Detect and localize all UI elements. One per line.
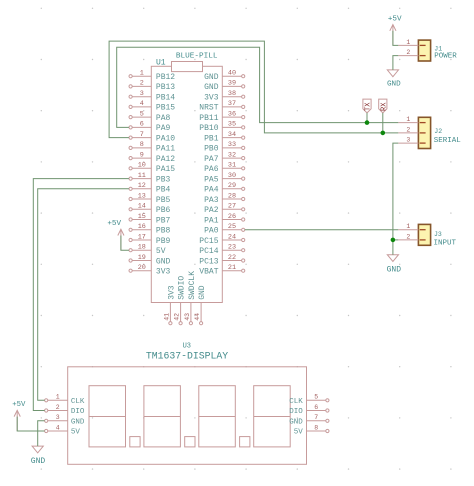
U1 pin 2 (PB13): [129, 80, 175, 93]
U3 decimal point 2: [185, 437, 195, 447]
svg-text:2: 2: [406, 49, 410, 56]
svg-text:26: 26: [228, 213, 236, 221]
svg-text:1: 1: [406, 223, 410, 230]
+5V power symbol (U1 pin 18): [107, 220, 124, 250]
svg-text:U1: U1: [156, 59, 166, 68]
U3 decimal point 1: [130, 437, 140, 447]
svg-text:PB7: PB7: [156, 216, 171, 225]
U1 pin 28 (PA3): [204, 192, 245, 205]
svg-text:30: 30: [228, 172, 236, 180]
U1 pin 7 (PA10): [129, 131, 175, 144]
J3 pin 1: [398, 223, 418, 230]
svg-text:PB10: PB10: [199, 124, 218, 133]
U3 pin 2 (DIO): [45, 404, 85, 416]
svg-text:1: 1: [56, 394, 60, 401]
J3 value label INPUT: [434, 240, 457, 248]
svg-text:PB9: PB9: [156, 237, 171, 246]
wire PA0 (U1 pin 25) to J3 pin 1: [245, 229, 398, 231]
U1 pin 26 (PA1): [204, 213, 245, 226]
connector J3 INPUT: [418, 224, 430, 245]
J2 reference label: [434, 128, 442, 135]
svg-text:DIO: DIO: [289, 408, 303, 416]
svg-text:NRST: NRST: [199, 104, 218, 113]
svg-text:14: 14: [138, 203, 146, 211]
U1 pin 3 (PB14): [129, 90, 175, 103]
U1 pin 18 (5V): [129, 244, 166, 257]
wire +5V to U1 pin 18 (5V): [121, 236, 129, 251]
+5V power symbol (J1): [388, 15, 402, 45]
U1 pin 39 (GND): [204, 80, 245, 93]
svg-text:5V: 5V: [71, 429, 81, 437]
U1 pin 30 (PA5): [204, 172, 245, 185]
J2 pin 2: [398, 126, 418, 133]
U1 pin 12 (PB4): [129, 182, 171, 195]
svg-text:PA7: PA7: [204, 155, 219, 164]
U3 digit 1: [89, 386, 126, 447]
svg-text:27: 27: [228, 203, 236, 211]
svg-text:PA4: PA4: [204, 186, 219, 195]
svg-text:35: 35: [228, 121, 236, 129]
wire PB4 (U1 pin 12) to U3 pin 1 CLK: [38, 189, 129, 400]
svg-text:34: 34: [228, 131, 236, 139]
svg-text:+5V: +5V: [388, 15, 402, 23]
svg-text:18: 18: [138, 244, 146, 252]
svg-text:15: 15: [138, 213, 146, 221]
svg-text:GND: GND: [204, 73, 219, 82]
svg-text:GND: GND: [198, 285, 207, 300]
svg-text:25: 25: [228, 223, 236, 231]
svg-text:CLK: CLK: [71, 398, 85, 406]
J2 value label SERIAL: [434, 137, 462, 145]
svg-text:VBAT: VBAT: [199, 268, 218, 277]
svg-text:1: 1: [406, 116, 410, 123]
svg-text:37: 37: [228, 100, 236, 108]
svg-text:23: 23: [228, 244, 236, 252]
U1 pin 37 (NRST): [199, 100, 245, 113]
svg-text:40: 40: [228, 70, 236, 78]
svg-text:PB1: PB1: [204, 134, 219, 143]
wire TX label stub: [366, 113, 368, 123]
U1 pin 43 (SWDCLK): [184, 271, 197, 325]
svg-text:17: 17: [138, 233, 146, 241]
svg-text:4: 4: [56, 424, 60, 431]
svg-text:POWER: POWER: [434, 53, 457, 61]
U1 pin 22 (PC13): [199, 254, 245, 267]
svg-text:PA9: PA9: [156, 124, 171, 133]
U1 pin 9 (PA12): [129, 151, 175, 164]
svg-text:6: 6: [314, 404, 318, 411]
svg-text:2: 2: [140, 80, 144, 88]
wire RX label stub: [382, 113, 384, 133]
svg-text:3V3: 3V3: [167, 285, 176, 300]
svg-text:4: 4: [140, 100, 144, 108]
svg-text:PA12: PA12: [156, 155, 175, 164]
svg-text:5: 5: [314, 394, 318, 401]
svg-text:PB14: PB14: [156, 94, 175, 103]
U3 pin 7 (GND): [289, 414, 329, 426]
svg-text:TM1637-DISPLAY: TM1637-DISPLAY: [146, 350, 228, 361]
svg-text:PB13: PB13: [156, 83, 175, 92]
svg-text:39: 39: [228, 80, 236, 88]
svg-text:20: 20: [138, 264, 146, 272]
svg-text:3V3: 3V3: [156, 268, 171, 277]
svg-text:PA10: PA10: [156, 134, 175, 143]
U1 pin 42 (SWDIO): [174, 276, 187, 325]
svg-text:SERIAL: SERIAL: [434, 137, 462, 145]
wire +5V to U3 pin 4 (5V): [17, 417, 44, 431]
U1 pin 5 (PA8): [129, 110, 171, 123]
svg-text:9: 9: [140, 151, 144, 159]
svg-text:2: 2: [406, 126, 410, 133]
U1 pin 4 (PB15): [129, 100, 175, 113]
+5V power symbol (U3): [12, 401, 26, 431]
svg-text:33: 33: [228, 141, 236, 149]
svg-text:PB15: PB15: [156, 104, 175, 113]
svg-text:PA6: PA6: [204, 165, 219, 174]
J2 pin 1: [398, 116, 418, 123]
svg-text:3: 3: [140, 90, 144, 98]
junction TX on J2 pin 1 wire: [365, 120, 370, 125]
svg-text:7: 7: [140, 131, 144, 139]
U1 pin 11 (PB3): [129, 172, 171, 185]
module U1 BLUE-PILL body: [151, 62, 222, 303]
svg-text:44: 44: [194, 313, 201, 321]
U1 pin 16 (PB8): [129, 223, 171, 236]
connector J2 SERIAL: [418, 117, 430, 148]
U3 digit 4: [254, 386, 291, 447]
U1 pin 24 (PC15): [199, 233, 245, 246]
U1 value label BLUE-PILL: [176, 53, 218, 61]
svg-text:GND: GND: [156, 257, 171, 266]
svg-text:13: 13: [138, 192, 146, 200]
U3 reference label: [183, 342, 191, 350]
svg-text:29: 29: [228, 182, 236, 190]
svg-text:10: 10: [138, 162, 146, 170]
svg-text:7: 7: [314, 414, 318, 421]
U1 pin 14 (PB6): [129, 203, 171, 216]
svg-text:SWDCLK: SWDCLK: [188, 271, 197, 300]
svg-text:38: 38: [228, 90, 236, 98]
wire PA9 (U1 pin 6) to J2 pin 1, net TX: [117, 47, 399, 127]
U1 pin 33 (PB0): [204, 141, 245, 154]
svg-text:PC13: PC13: [199, 257, 218, 266]
U3 pin 4 (5V): [45, 424, 81, 436]
svg-text:3V3: 3V3: [204, 94, 219, 103]
svg-text:1: 1: [140, 70, 144, 78]
U1 reference label: [156, 59, 166, 68]
svg-text:PC15: PC15: [199, 237, 218, 246]
svg-text:PA15: PA15: [156, 165, 175, 174]
U1 pin 10 (PA15): [129, 162, 175, 175]
svg-text:J1: J1: [434, 45, 442, 52]
svg-text:5V: 5V: [294, 429, 304, 437]
svg-text:2: 2: [406, 233, 410, 240]
GND power symbol (J3): [387, 255, 402, 275]
U3 pin 1 (CLK): [45, 394, 85, 406]
svg-text:16: 16: [138, 223, 146, 231]
svg-text:GND: GND: [387, 80, 401, 88]
svg-text:+5V: +5V: [12, 401, 26, 409]
U3 digit 2: [144, 386, 181, 447]
svg-text:22: 22: [228, 254, 236, 262]
U1 pin 1 (PB12): [129, 70, 175, 83]
svg-text:GND: GND: [71, 419, 85, 427]
svg-text:PB4: PB4: [156, 186, 171, 195]
U3 pin 3 (GND): [45, 414, 85, 426]
U1 pin 17 (PB9): [129, 233, 171, 246]
U3 decimal point 3: [240, 437, 250, 447]
U1 pin 25 (PA0): [204, 223, 245, 236]
svg-text:GND: GND: [204, 83, 219, 92]
U3 digit 3: [199, 386, 236, 447]
GND power symbol (U3): [31, 446, 46, 466]
net label TX: [363, 99, 373, 113]
U1 pin 34 (PB1): [204, 131, 245, 144]
svg-text:PB12: PB12: [156, 73, 175, 82]
U1 pin 29 (PA4): [204, 182, 245, 195]
svg-text:8: 8: [140, 141, 144, 149]
U1 pin 8 (PA11): [129, 141, 175, 154]
U1 pin 31 (PA6): [204, 162, 245, 175]
U1 pin 27 (PA2): [204, 203, 245, 216]
U1 pin 23 (PC14): [199, 244, 245, 257]
svg-text:RX: RX: [381, 102, 389, 111]
U1 pin 40 (GND): [204, 70, 245, 83]
U1 pin 15 (PB7): [129, 213, 171, 226]
U1 pin 36 (PB11): [199, 110, 245, 123]
display U3 TM1637-DISPLAY body: [68, 367, 307, 465]
U1 pin 21 (VBAT): [199, 264, 245, 277]
svg-text:PA1: PA1: [204, 216, 219, 225]
svg-text:PB11: PB11: [199, 114, 218, 123]
svg-text:21: 21: [228, 264, 236, 272]
wire GND rail to J3 pin 2: [393, 239, 398, 241]
U1 pin 35 (PB10): [199, 121, 245, 134]
svg-text:PA8: PA8: [156, 114, 171, 123]
svg-text:+5V: +5V: [107, 220, 121, 228]
U1 pin 38 (3V3): [204, 90, 245, 103]
junction RX on J2 pin 2 wire: [381, 131, 386, 136]
svg-text:3: 3: [56, 414, 60, 421]
U3 pin 5 (CLK): [289, 394, 329, 406]
svg-text:SWDIO: SWDIO: [178, 276, 187, 300]
svg-text:6: 6: [140, 121, 144, 129]
J1 value label POWER: [434, 53, 457, 61]
svg-text:PA2: PA2: [204, 206, 219, 215]
U1 pin 41 (3V3): [163, 285, 176, 325]
svg-text:U3: U3: [183, 342, 191, 350]
svg-text:PB5: PB5: [156, 196, 171, 205]
svg-text:PA5: PA5: [204, 175, 219, 184]
svg-text:19: 19: [138, 254, 146, 262]
svg-text:42: 42: [174, 313, 181, 321]
J1 pin 2: [398, 49, 418, 56]
U3 pin 8 (5V): [294, 424, 329, 436]
svg-text:PA11: PA11: [156, 145, 175, 154]
U1 pin 20 (3V3): [129, 264, 171, 277]
wire J2 pin 3 to GND rail: [393, 143, 398, 255]
J3 pin 2: [398, 233, 418, 240]
U1 pin 32 (PA7): [204, 151, 245, 164]
wire PB3 (U1 pin 11) to U3 pin 2 DIO: [33, 179, 129, 411]
connector J1 POWER: [418, 40, 430, 61]
svg-text:41: 41: [163, 313, 170, 321]
svg-text:CLK: CLK: [289, 398, 303, 406]
J1 pin 1: [398, 39, 418, 46]
svg-text:DIO: DIO: [71, 408, 85, 416]
J2 pin 3: [398, 137, 418, 144]
wire U3 pin 3 (GND) to GND: [38, 421, 45, 446]
wire +5V to J1 pin 1: [393, 31, 398, 46]
svg-text:2: 2: [56, 404, 60, 411]
U3 value label TM1637-DISPLAY: [146, 350, 228, 361]
svg-text:24: 24: [228, 233, 236, 241]
U1 pin 19 (GND): [129, 254, 171, 267]
svg-text:GND: GND: [31, 457, 46, 466]
svg-text:PA0: PA0: [204, 227, 219, 236]
svg-text:TX: TX: [365, 102, 373, 111]
svg-text:PB0: PB0: [204, 145, 219, 154]
svg-text:GND: GND: [289, 419, 303, 427]
U3 pin 6 (DIO): [289, 404, 329, 416]
svg-text:32: 32: [228, 151, 236, 159]
J3 reference label: [434, 231, 442, 238]
svg-text:PB8: PB8: [156, 227, 171, 236]
svg-text:1: 1: [406, 39, 410, 46]
wire PA10 (U1 pin 7) to J2 pin 2, net RX: [109, 41, 398, 138]
svg-text:PB3: PB3: [156, 175, 171, 184]
U1 pin 13 (PB5): [129, 192, 171, 205]
svg-text:GND: GND: [387, 266, 402, 275]
GND power symbol (J1): [387, 70, 401, 89]
svg-text:PC14: PC14: [199, 247, 218, 256]
svg-text:12: 12: [138, 182, 146, 190]
svg-text:8: 8: [314, 424, 318, 431]
svg-text:PB6: PB6: [156, 206, 171, 215]
svg-text:BLUE-PILL: BLUE-PILL: [176, 53, 218, 61]
svg-text:28: 28: [228, 192, 236, 200]
U1 pin 6 (PA9): [129, 121, 171, 134]
J1 reference label: [434, 45, 442, 52]
svg-text:5V: 5V: [156, 247, 166, 256]
svg-text:11: 11: [138, 172, 146, 180]
U1 pin 44 (GND): [194, 285, 207, 325]
net label RX: [379, 99, 389, 113]
svg-text:3: 3: [406, 137, 410, 144]
svg-text:36: 36: [228, 110, 236, 118]
svg-text:43: 43: [184, 313, 191, 321]
wire J1 pin 2 to GND: [393, 56, 398, 70]
svg-text:31: 31: [228, 162, 236, 170]
svg-text:5: 5: [140, 110, 144, 118]
svg-text:J3: J3: [434, 231, 442, 238]
svg-text:PA3: PA3: [204, 196, 219, 205]
svg-text:J2: J2: [434, 128, 442, 135]
junction J3 pin 2 / GND: [391, 238, 396, 243]
svg-text:INPUT: INPUT: [434, 240, 457, 248]
